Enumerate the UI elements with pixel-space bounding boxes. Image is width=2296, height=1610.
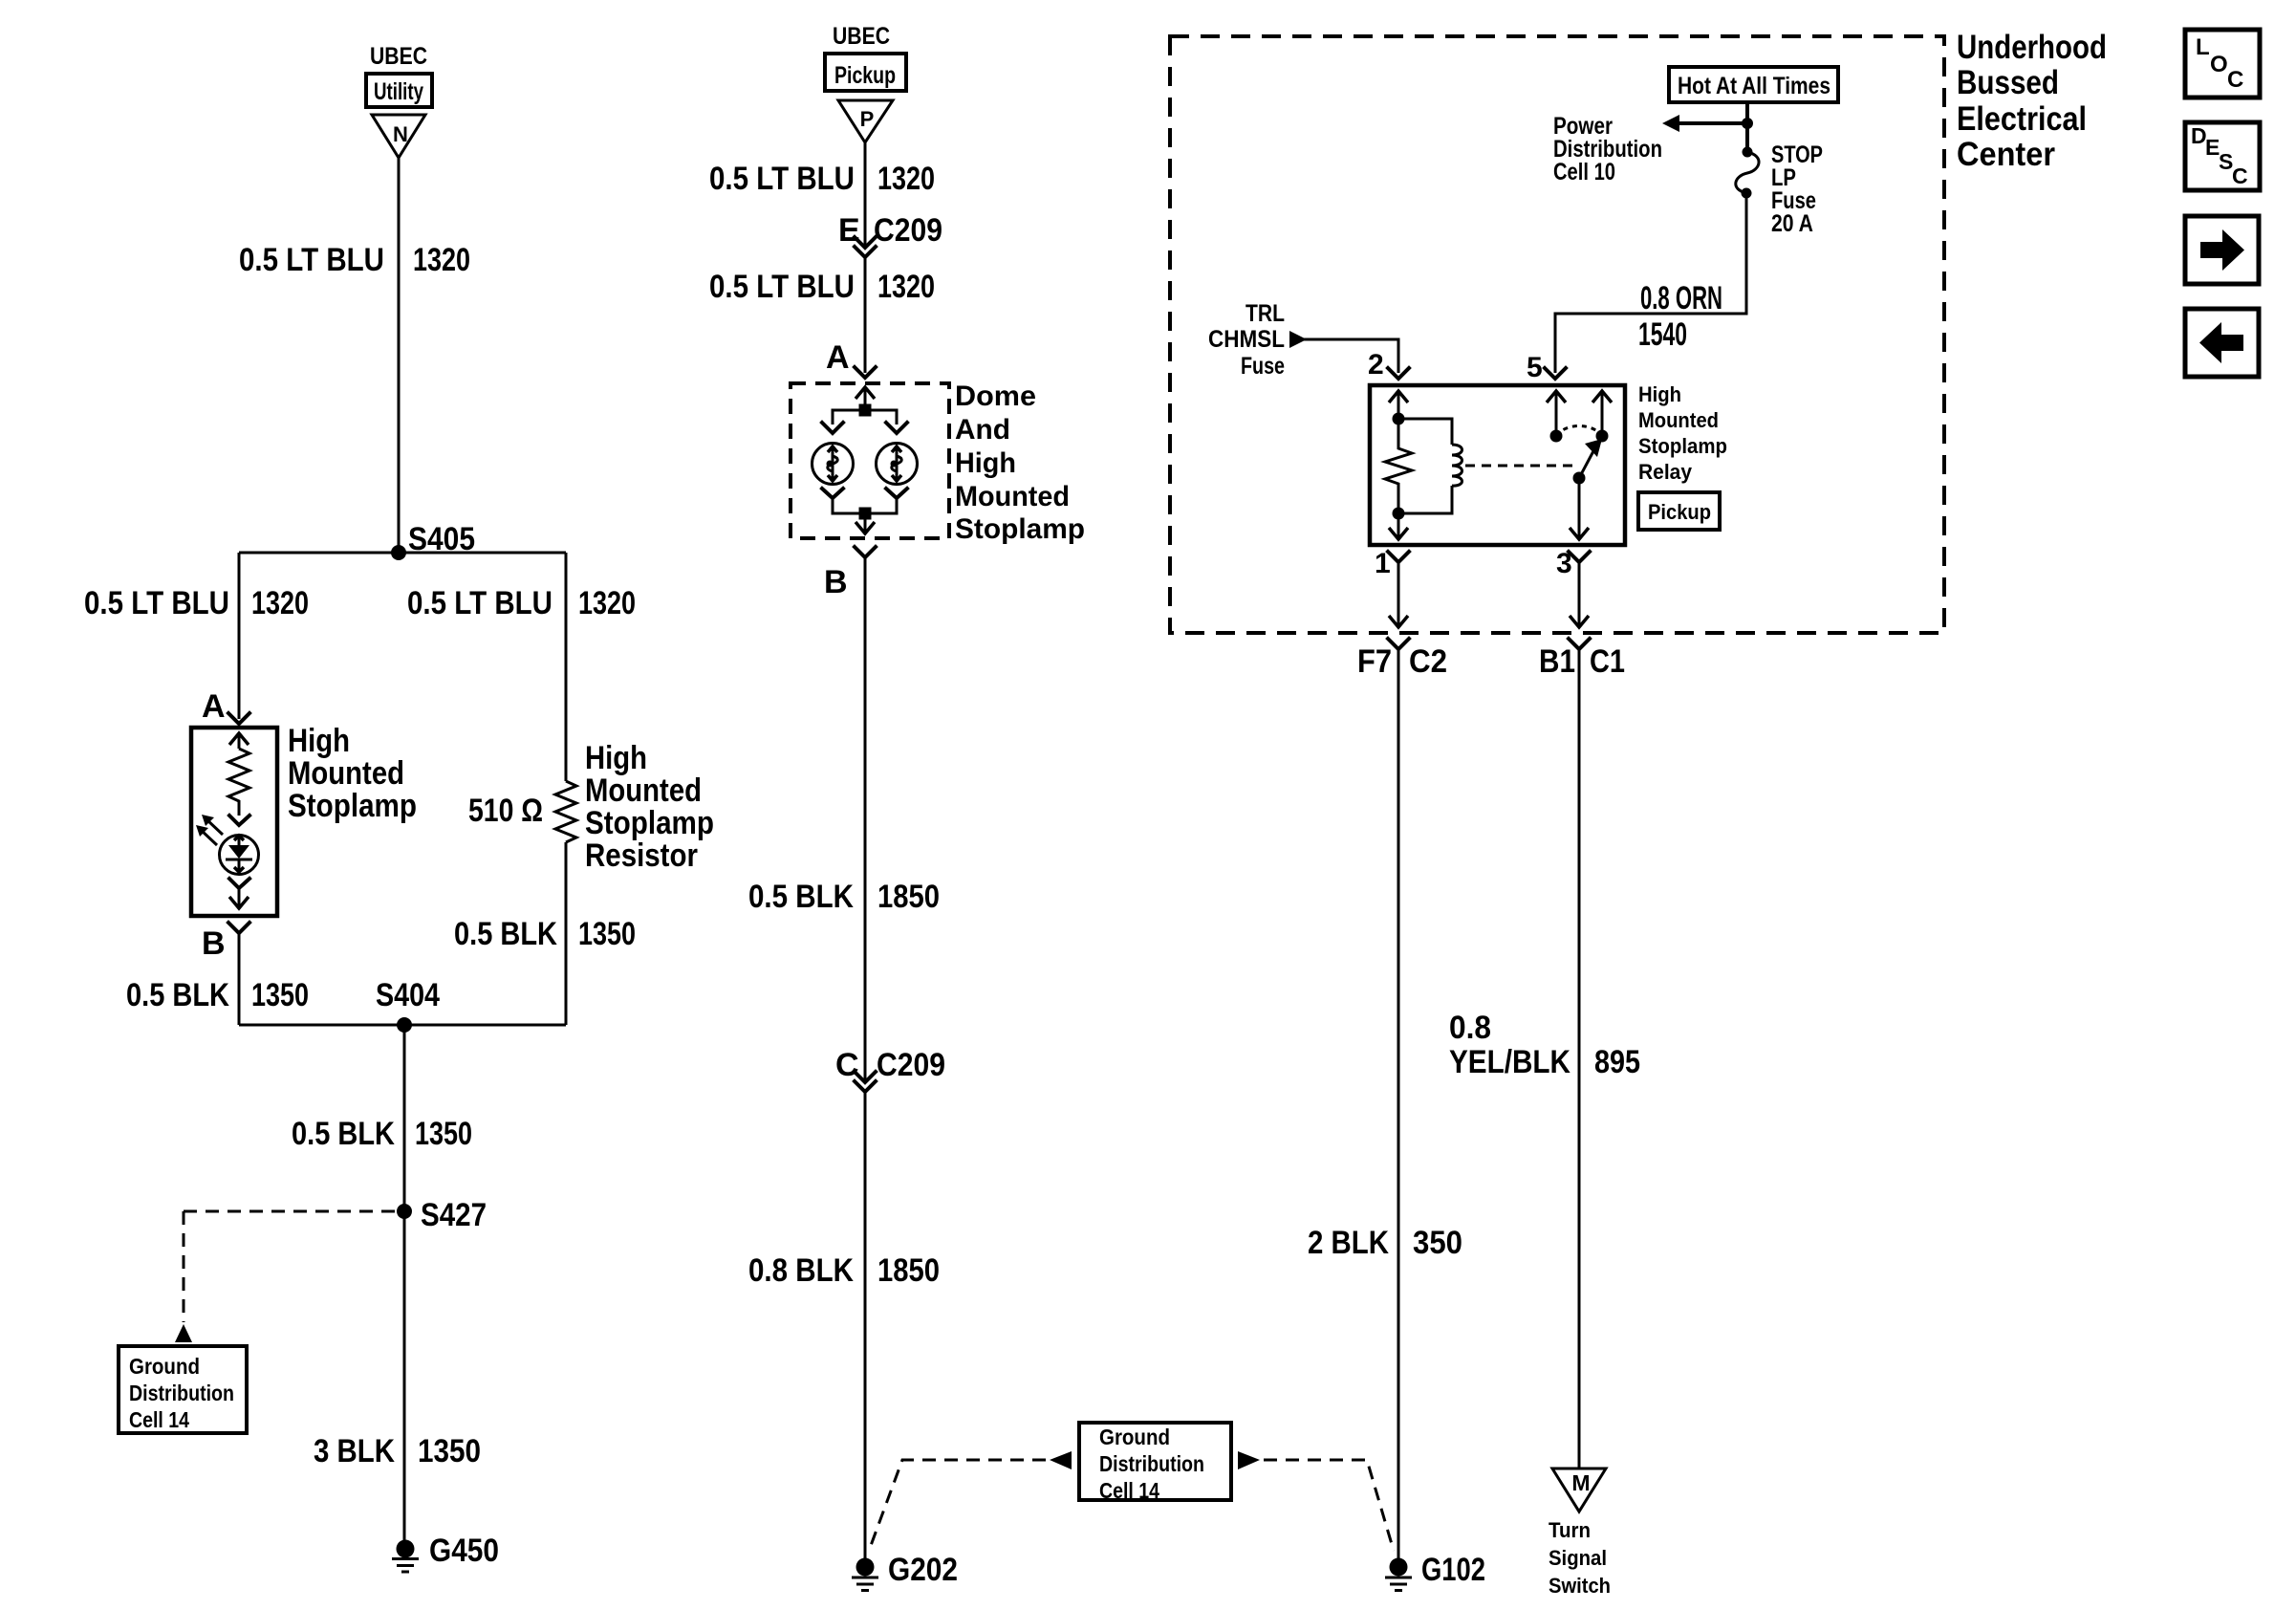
svg-text:Resistor: Resistor bbox=[585, 838, 698, 874]
svg-text:0.5 BLK: 0.5 BLK bbox=[126, 977, 229, 1013]
svg-text:C2: C2 bbox=[1409, 643, 1447, 680]
svg-text:B: B bbox=[202, 925, 226, 962]
svg-text:Pickup: Pickup bbox=[834, 62, 896, 89]
reference arrowhead (left, pointing left) bbox=[1050, 1451, 1072, 1469]
relay junction top bbox=[1393, 413, 1405, 425]
svg-text:1350: 1350 bbox=[251, 977, 309, 1013]
dome lamp branch wires top bbox=[833, 410, 897, 424]
svg-text:N: N bbox=[393, 122, 408, 146]
pin 5 chevron bbox=[1545, 368, 1566, 379]
component label High Mounted Stoplamp Resistor bbox=[585, 740, 714, 874]
dome lamp dashed box bbox=[791, 383, 949, 538]
svg-text:Hot At All Times: Hot At All Times bbox=[1678, 73, 1830, 99]
svg-text:0.5 BLK: 0.5 BLK bbox=[748, 879, 854, 915]
connector box Utility bbox=[366, 74, 432, 107]
wire P to connector C209-E bbox=[864, 142, 867, 247]
dome lamp input arrow bbox=[856, 387, 875, 410]
underhood bussed electrical center dashed box bbox=[1170, 36, 1944, 633]
connector C209 pin E label bbox=[838, 212, 942, 249]
svg-text:A: A bbox=[202, 688, 226, 725]
svg-text:Bussed: Bussed bbox=[1957, 64, 2059, 101]
svg-text:1350: 1350 bbox=[578, 916, 636, 952]
svg-text:High: High bbox=[288, 723, 350, 759]
svg-text:1320: 1320 bbox=[877, 269, 935, 305]
svg-text:E: E bbox=[838, 212, 860, 249]
svg-text:Mounted: Mounted bbox=[1638, 408, 1719, 432]
svg-text:Mounted: Mounted bbox=[585, 772, 702, 809]
relay box bbox=[1370, 385, 1625, 545]
svg-text:20 A: 20 A bbox=[1771, 210, 1813, 237]
wire label 0.5 LT BLU 1320 (left branch) bbox=[84, 585, 309, 621]
svg-text:High: High bbox=[1638, 382, 1681, 406]
relay switch blade bbox=[1573, 439, 1603, 485]
svg-text:Ground: Ground bbox=[129, 1354, 200, 1379]
icon box DESC bbox=[2185, 122, 2260, 190]
left lamp lower chevron bbox=[822, 489, 843, 498]
wire S404 horizontal bbox=[239, 1024, 566, 1027]
svg-text:1850: 1850 bbox=[877, 1252, 940, 1289]
svg-text:Stoplamp: Stoplamp bbox=[1638, 434, 1727, 458]
svg-text:Electrical: Electrical bbox=[1957, 100, 2087, 138]
wire C209 to G202 bbox=[864, 1092, 867, 1558]
icon box LOC bbox=[2185, 30, 2260, 98]
connector box Pickup (top) bbox=[825, 54, 906, 91]
dashed reference line to G102 bbox=[1264, 1460, 1394, 1551]
wire right branch down to resistor bbox=[565, 553, 568, 781]
svg-text:Center: Center bbox=[1957, 136, 2055, 173]
connector C1 symbol at UBEC edge bbox=[1569, 639, 1590, 1469]
connector C209 symbol (C) bbox=[855, 1072, 876, 1092]
svg-text:0.8 BLK: 0.8 BLK bbox=[748, 1252, 854, 1289]
svg-text:C: C bbox=[2227, 67, 2243, 93]
svg-text:2: 2 bbox=[1368, 349, 1384, 381]
splice S427 bbox=[397, 1197, 487, 1233]
relay pin1 arrow down bbox=[1389, 513, 1408, 539]
ground G450 bbox=[392, 1533, 499, 1572]
right lamp chevron top bbox=[886, 423, 907, 433]
svg-text:C: C bbox=[835, 1047, 859, 1083]
wire label 0.5 BLK 1850 bbox=[748, 879, 940, 915]
svg-text:895: 895 bbox=[1594, 1044, 1640, 1080]
svg-text:And: And bbox=[955, 414, 1010, 446]
connector F7 C2 labels bbox=[1357, 643, 1447, 680]
wire label 0.5 LT BLU 1320 (pickup lower) bbox=[709, 269, 935, 305]
svg-text:G202: G202 bbox=[888, 1552, 958, 1588]
stoplamp internal lower chevron bbox=[229, 879, 249, 888]
icon box next arrow bbox=[2185, 216, 2259, 284]
svg-text:UBEC: UBEC bbox=[833, 23, 890, 50]
dome lamp junction bottom bbox=[859, 508, 872, 520]
wire hot feed down bbox=[1745, 102, 1749, 151]
connector A chevron bbox=[228, 713, 249, 724]
svg-text:B1: B1 bbox=[1539, 643, 1575, 680]
wire S427 to G450 bbox=[403, 1211, 406, 1541]
svg-text:0.5 LT BLU: 0.5 LT BLU bbox=[239, 242, 384, 278]
svg-text:F7: F7 bbox=[1357, 643, 1392, 680]
wire label 2 BLK 350 bbox=[1308, 1225, 1462, 1261]
ground distribution cell 14 box (left) bbox=[119, 1346, 247, 1433]
wire label 0.5 BLK 1350 (right) bbox=[454, 916, 636, 952]
component label High Mounted Stoplamp bbox=[288, 723, 417, 824]
off-page triangle M bbox=[1552, 1469, 1606, 1512]
stoplamp resistor element bbox=[228, 749, 249, 816]
dashed reference line to G202 bbox=[869, 1460, 1046, 1551]
svg-text:S427: S427 bbox=[421, 1197, 487, 1233]
wire resistor to S404 bbox=[565, 842, 568, 1025]
svg-text:Turn: Turn bbox=[1549, 1518, 1591, 1542]
connector C209 symbol (E) bbox=[855, 237, 876, 257]
svg-text:UBEC: UBEC bbox=[370, 43, 427, 70]
svg-text:Stoplamp: Stoplamp bbox=[288, 788, 417, 824]
svg-text:1320: 1320 bbox=[877, 161, 935, 197]
svg-text:0.8 ORN: 0.8 ORN bbox=[1640, 280, 1722, 316]
junction dot hot feed bbox=[1742, 118, 1753, 129]
svg-text:Fuse: Fuse bbox=[1241, 353, 1285, 380]
wire C209 to connector A bbox=[864, 257, 867, 373]
wire B to connector C209-C bbox=[864, 557, 867, 1082]
ground G102 bbox=[1385, 1552, 1485, 1591]
wire label 0.8 YEL/BLK 895 bbox=[1449, 1010, 1640, 1080]
hot at all times box bbox=[1669, 67, 1838, 102]
svg-text:1540: 1540 bbox=[1638, 316, 1687, 353]
stoplamp internal down arrow bbox=[229, 888, 249, 908]
resistor 510 ohm element bbox=[555, 781, 576, 842]
svg-text:B: B bbox=[824, 564, 848, 600]
high mounted stoplamp box bbox=[191, 728, 277, 916]
svg-text:G102: G102 bbox=[1421, 1552, 1485, 1588]
svg-text:TRL: TRL bbox=[1245, 300, 1285, 327]
svg-text:1850: 1850 bbox=[877, 879, 940, 915]
pin 1 chevron bbox=[1388, 552, 1409, 562]
svg-text:0.5 LT BLU: 0.5 LT BLU bbox=[709, 269, 855, 305]
left lamp bulb bbox=[812, 444, 854, 485]
off-page triangle P bbox=[838, 100, 893, 142]
wire label 0.5 LT BLU 1320 (pickup top) bbox=[709, 161, 935, 197]
svg-text:0.5 LT BLU: 0.5 LT BLU bbox=[407, 585, 552, 621]
svg-text:0.5 BLK: 0.5 BLK bbox=[454, 916, 557, 952]
relay actuation dashed line bbox=[1465, 465, 1573, 468]
relay coil element bbox=[1452, 445, 1462, 486]
pin 2 chevron bbox=[1388, 368, 1409, 379]
LED flash arrows bbox=[196, 815, 223, 845]
connector B1 C1 labels bbox=[1539, 643, 1625, 680]
svg-text:Mounted: Mounted bbox=[288, 755, 404, 792]
label Turn Signal Switch bbox=[1549, 1518, 1611, 1598]
component label Dome And High Mounted Stoplamp bbox=[955, 381, 1085, 545]
reference arrowhead (right, pointing right) bbox=[1238, 1451, 1260, 1469]
svg-text:Distribution: Distribution bbox=[129, 1381, 234, 1405]
stoplamp internal chevron bbox=[229, 816, 249, 825]
svg-text:Utility: Utility bbox=[374, 78, 423, 105]
wire left branch down to connector A bbox=[238, 553, 241, 719]
svg-text:L: L bbox=[2196, 34, 2210, 60]
reference arrowhead (up) bbox=[175, 1324, 192, 1342]
wire pin3 to UBEC edge bbox=[1570, 562, 1589, 627]
relay pin5 arrow and contact bbox=[1547, 391, 1566, 443]
wire S405 horizontal bbox=[239, 552, 566, 555]
svg-text:0.5 LT BLU: 0.5 LT BLU bbox=[84, 585, 229, 621]
wire label 0.5 LT BLU 1320 (right branch) bbox=[407, 585, 636, 621]
svg-text:0.8: 0.8 bbox=[1449, 1010, 1491, 1046]
svg-text:1350: 1350 bbox=[415, 1116, 472, 1152]
svg-text:510 Ω: 510 Ω bbox=[468, 793, 543, 829]
connector C2 symbol at UBEC edge bbox=[1388, 639, 1409, 1558]
svg-text:5: 5 bbox=[1527, 352, 1543, 383]
component label High Mounted Stoplamp Relay bbox=[1638, 382, 1727, 484]
relay junction bottom bbox=[1393, 508, 1405, 520]
wire label 0.5 BLK 1350 (left) bbox=[126, 977, 309, 1013]
svg-text:Mounted: Mounted bbox=[955, 481, 1070, 512]
svg-text:O: O bbox=[2210, 52, 2228, 77]
svg-text:G450: G450 bbox=[429, 1533, 499, 1569]
LED lamp circle bbox=[220, 836, 259, 875]
svg-text:1320: 1320 bbox=[413, 242, 470, 278]
svg-text:C1: C1 bbox=[1590, 643, 1625, 680]
svg-text:Relay: Relay bbox=[1638, 460, 1693, 484]
off-page triangle N bbox=[372, 115, 425, 158]
wire S404 to S427 bbox=[403, 1025, 406, 1211]
svg-text:1320: 1320 bbox=[251, 585, 309, 621]
dome lamp output arrow bbox=[856, 513, 875, 533]
connector A chevron (dome lamp) bbox=[855, 367, 876, 378]
svg-text:Cell 14: Cell 14 bbox=[129, 1407, 189, 1432]
connector box Pickup (relay) bbox=[1638, 492, 1720, 530]
wire fuse to relay pin 5 bbox=[1555, 193, 1746, 373]
wire label 0.5 LT BLU 1320 (top) bbox=[239, 242, 470, 278]
svg-text:Signal: Signal bbox=[1549, 1546, 1607, 1570]
svg-text:2 BLK: 2 BLK bbox=[1308, 1225, 1389, 1261]
wire label 0.8 ORN 1540 bbox=[1638, 280, 1722, 353]
wire label 0.8 BLK 1850 bbox=[748, 1252, 940, 1289]
dome lamp junction top bbox=[859, 404, 872, 417]
relay resistor element bbox=[1385, 419, 1412, 513]
relay contact dotted arc bbox=[1556, 426, 1602, 437]
svg-text:YEL/BLK: YEL/BLK bbox=[1449, 1044, 1570, 1080]
svg-text:3 BLK: 3 BLK bbox=[314, 1433, 395, 1469]
label STOP LP Fuse 20 A bbox=[1771, 141, 1823, 237]
svg-text:C209: C209 bbox=[874, 212, 942, 249]
svg-text:P: P bbox=[860, 107, 875, 131]
svg-text:A: A bbox=[826, 339, 850, 376]
svg-text:M: M bbox=[1571, 1470, 1590, 1495]
wire pin1 to UBEC edge bbox=[1389, 562, 1408, 627]
right lamp bulb bbox=[877, 444, 918, 485]
label Underhood Bussed Electrical Center bbox=[1957, 29, 2107, 173]
wire label 3 BLK 1350 bbox=[314, 1433, 481, 1469]
splice S405 bbox=[391, 521, 475, 560]
svg-text:CHMSL: CHMSL bbox=[1208, 326, 1285, 353]
svg-text:High: High bbox=[955, 447, 1016, 479]
fuse STOP LP 20A element bbox=[1736, 147, 1759, 199]
svg-text:High: High bbox=[585, 740, 647, 776]
label TRL CHMSL Fuse bbox=[1208, 300, 1285, 380]
svg-text:1350: 1350 bbox=[418, 1433, 481, 1469]
ground G202 bbox=[852, 1552, 958, 1591]
connector B chevron (dome lamp) bbox=[855, 547, 876, 557]
splice S404 bbox=[376, 977, 440, 1033]
svg-text:Switch: Switch bbox=[1549, 1574, 1611, 1598]
connector C209 pin C label bbox=[835, 1047, 945, 1083]
svg-text:1320: 1320 bbox=[578, 585, 636, 621]
svg-text:C: C bbox=[2232, 163, 2248, 188]
icon box previous arrow bbox=[2185, 309, 2259, 377]
TRL CHMSL feed arrow bbox=[1289, 331, 1307, 348]
pin 3 chevron bbox=[1569, 552, 1590, 562]
svg-text:S404: S404 bbox=[376, 977, 440, 1013]
svg-text:350: 350 bbox=[1413, 1225, 1462, 1261]
ground distribution cell 14 box (middle) bbox=[1079, 1423, 1231, 1503]
relay NO contact arrow bbox=[1592, 391, 1612, 443]
svg-text:Pickup: Pickup bbox=[1648, 500, 1711, 524]
wire TRL CHMSL to relay pin 2 bbox=[1303, 339, 1398, 373]
connector B chevron below box bbox=[228, 923, 249, 933]
stoplamp internal up arrow bbox=[229, 733, 249, 749]
label Power Distribution Cell 10 bbox=[1553, 113, 1662, 185]
svg-text:C209: C209 bbox=[877, 1047, 945, 1083]
relay coil branch wires bbox=[1398, 419, 1452, 513]
left lamp chevron top bbox=[822, 423, 843, 433]
dashed reference line to ground distribution bbox=[184, 1211, 398, 1322]
svg-text:Ground: Ground bbox=[1099, 1425, 1170, 1449]
svg-text:0.5 BLK: 0.5 BLK bbox=[292, 1116, 395, 1152]
svg-text:0.5 LT BLU: 0.5 LT BLU bbox=[709, 161, 855, 197]
wire UBEC-N to S405 bbox=[398, 158, 401, 553]
svg-text:Underhood: Underhood bbox=[1957, 29, 2107, 66]
svg-text:Cell 10: Cell 10 bbox=[1553, 159, 1615, 185]
relay pin2 arrow up bbox=[1389, 391, 1408, 419]
relay pin3 arrow down bbox=[1570, 478, 1589, 539]
wire label 0.5 BLK 1350 (below S404) bbox=[292, 1116, 472, 1152]
svg-text:Stoplamp: Stoplamp bbox=[585, 805, 714, 841]
svg-text:Dome: Dome bbox=[955, 381, 1036, 412]
right lamp lower chevron bbox=[886, 489, 907, 498]
svg-text:Stoplamp: Stoplamp bbox=[955, 513, 1085, 545]
wire B to S404 bbox=[238, 933, 241, 1025]
power distribution feed arrow bbox=[1662, 115, 1747, 132]
svg-text:Cell 14: Cell 14 bbox=[1099, 1478, 1159, 1503]
svg-text:Distribution: Distribution bbox=[1099, 1451, 1204, 1476]
dome lamp branch wires bottom bbox=[833, 498, 897, 513]
